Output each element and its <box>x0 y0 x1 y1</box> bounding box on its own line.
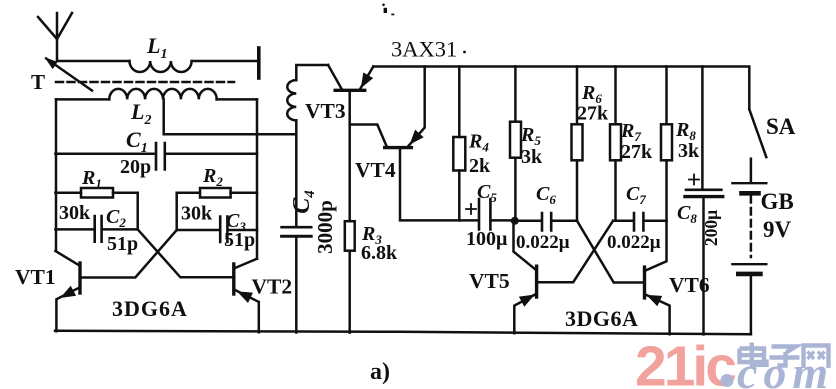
wire right rail <box>256 99 259 258</box>
capacitor C2 <box>55 228 137 231</box>
wire antenna to L1 <box>57 60 130 63</box>
svg-text:0.022μ: 0.022μ <box>516 232 570 253</box>
resistor R3 <box>345 221 355 251</box>
svg-text:20p: 20p <box>120 156 151 178</box>
wire L1 to end bar <box>192 60 259 63</box>
svg-text:0.022μ: 0.022μ <box>607 232 661 253</box>
wire left rail <box>55 99 58 251</box>
resistor R7 <box>614 67 617 221</box>
node dot <box>511 217 519 225</box>
svg-text:C6: C6 <box>536 183 556 207</box>
capacitor C8 <box>701 67 704 189</box>
svg-text:6.8k: 6.8k <box>361 242 398 264</box>
resistor R1 <box>55 192 137 195</box>
resistor R8 <box>665 67 668 221</box>
svg-text:com: com <box>737 347 834 389</box>
switch SA <box>749 109 766 157</box>
watermark dot <box>721 374 734 387</box>
watermark CJK wang <box>804 346 829 369</box>
wire L2 tap <box>164 99 297 134</box>
wire cross C7 to VT5 base <box>539 221 614 282</box>
capacitor C4 <box>282 226 312 229</box>
wire R1 to node A <box>136 193 139 230</box>
svg-text:3k: 3k <box>521 146 543 168</box>
capacitor C3 <box>177 229 257 232</box>
svg-text:C2: C2 <box>106 206 126 230</box>
capacitor C1 <box>55 153 257 156</box>
svg-text:C7: C7 <box>626 183 646 207</box>
antenna <box>38 13 72 61</box>
svg-text:R4: R4 <box>468 131 489 155</box>
capacitor C6 <box>515 220 577 223</box>
arrow T <box>46 59 92 91</box>
svg-text:SA: SA <box>766 114 796 139</box>
svg-text:C1: C1 <box>126 127 148 156</box>
wire R2 to node B <box>175 193 178 230</box>
svg-text:VT6: VT6 <box>669 273 710 297</box>
svg-text:R5: R5 <box>520 124 541 148</box>
svg-text:R1: R1 <box>81 167 102 191</box>
transistor VT5 <box>514 221 536 270</box>
svg-text:3DG6A: 3DG6A <box>565 306 638 331</box>
capacitor C5 <box>459 219 515 222</box>
svg-text:VT5: VT5 <box>469 269 510 293</box>
resistor R6 <box>576 67 579 221</box>
svg-text:VT3: VT3 <box>305 99 346 123</box>
svg-text:VT2: VT2 <box>252 275 293 299</box>
wire cross C6 to VT6 base <box>577 221 643 283</box>
svg-text:C8: C8 <box>677 202 697 226</box>
inductor L2 <box>56 98 109 101</box>
svg-text:C5: C5 <box>477 181 497 205</box>
svg-text:51p: 51p <box>107 233 138 255</box>
top rail <box>373 67 749 110</box>
wire cross A to VT2 base <box>138 229 232 277</box>
svg-text:3k: 3k <box>678 140 700 162</box>
svg-text:2k: 2k <box>469 155 491 177</box>
coupling dashed line <box>56 81 234 84</box>
inductor L1 <box>130 61 192 72</box>
svg-text:VT1: VT1 <box>15 265 56 289</box>
bottom rail <box>55 331 751 335</box>
transistor VT4 <box>350 125 387 147</box>
svg-text:200μ: 200μ <box>701 210 721 246</box>
svg-text:3000p: 3000p <box>313 200 337 254</box>
transistor VT3 <box>328 65 342 89</box>
transistor VT1 <box>78 263 81 293</box>
svg-text:VT4: VT4 <box>355 158 396 182</box>
svg-text:L1: L1 <box>146 33 167 62</box>
wire cross B to VT1 base <box>82 230 177 278</box>
svg-text:30k: 30k <box>181 203 213 225</box>
svg-text:100μ: 100μ <box>466 228 508 250</box>
terminal bar <box>257 48 261 78</box>
transformer primary coil <box>296 65 328 80</box>
svg-text:27k: 27k <box>577 103 609 125</box>
speck <box>382 4 385 7</box>
svg-text:T: T <box>31 70 45 94</box>
svg-text:a): a) <box>370 359 390 385</box>
svg-text:3DG6A: 3DG6A <box>112 296 188 321</box>
svg-text:L2: L2 <box>130 99 151 128</box>
svg-text:30k: 30k <box>59 202 91 224</box>
svg-text:27k: 27k <box>621 141 653 163</box>
svg-text:R2: R2 <box>202 165 223 189</box>
watermark CJK zi <box>770 347 800 366</box>
svg-text:51p: 51p <box>224 229 255 251</box>
transistor VT2 <box>232 264 235 294</box>
battery GB <box>750 159 753 182</box>
capacitor C7 <box>613 220 667 223</box>
svg-text:3AX31: 3AX31 <box>391 37 457 62</box>
resistor R2 <box>177 192 257 195</box>
transistor VT6 <box>646 221 667 271</box>
watermark CJK dian <box>740 343 767 365</box>
svg-text:9V: 9V <box>763 217 792 242</box>
resistor R4 <box>458 67 461 221</box>
resistor R5 <box>514 67 517 221</box>
svg-text:GB: GB <box>761 189 794 214</box>
